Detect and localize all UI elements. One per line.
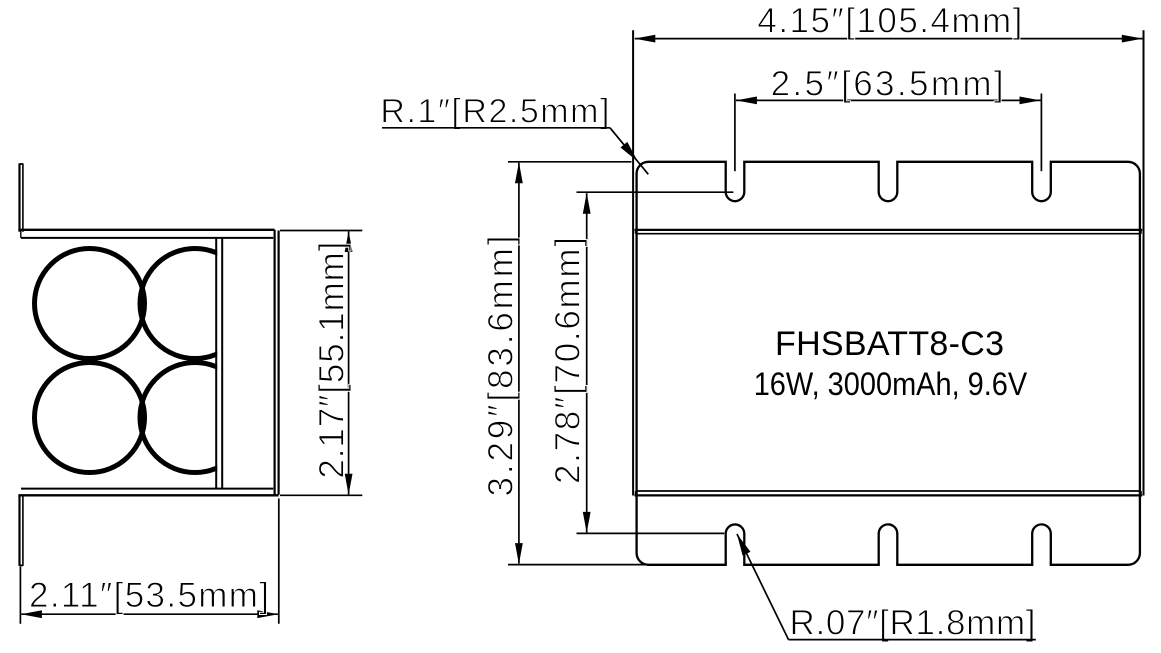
svg-text:FHSBATT8-C3: FHSBATT8-C3: [775, 325, 1004, 363]
svg-text:3.29″[83.6mm]: 3.29″[83.6mm]: [481, 236, 520, 497]
svg-text:R.07″[R1.8mm]: R.07″[R1.8mm]: [790, 604, 1036, 643]
svg-text:16W, 3000mAh, 9.6V: 16W, 3000mAh, 9.6V: [754, 366, 1028, 402]
svg-text:R.1″[R2.5mm]: R.1″[R2.5mm]: [380, 93, 609, 131]
svg-text:2.17″[55.1mm]: 2.17″[55.1mm]: [312, 242, 351, 479]
svg-text:4.15″[105.4mm]: 4.15″[105.4mm]: [757, 2, 1022, 41]
svg-text:2.11″[53.5mm]: 2.11″[53.5mm]: [29, 576, 269, 615]
svg-text:2.5″[63.5mm]: 2.5″[63.5mm]: [771, 64, 1004, 103]
svg-text:2.78″[70.6mm]: 2.78″[70.6mm]: [549, 237, 588, 484]
